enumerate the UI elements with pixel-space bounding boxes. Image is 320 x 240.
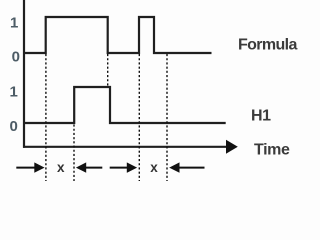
svg-text:0: 0 xyxy=(10,118,18,135)
svg-text:Formula: Formula xyxy=(238,36,297,53)
dimension arrow out of second x (points left) xyxy=(179,167,205,169)
dashed guide line at first x end xyxy=(73,125,75,182)
svg-text:0: 0 xyxy=(12,49,20,66)
arrowhead of third dimension arrow xyxy=(127,162,137,172)
svg-text:1: 1 xyxy=(10,84,18,101)
vertical signal axis xyxy=(23,0,25,148)
dashed guide line at second x end xyxy=(166,54,168,181)
dimension arrow into first x (points right) xyxy=(16,167,35,169)
svg-text:x: x xyxy=(150,160,158,175)
time axis arrowhead xyxy=(226,140,238,154)
H1 waveform trace xyxy=(24,87,226,123)
Formula waveform trace xyxy=(24,17,212,53)
dimension arrow out of first x (points left) xyxy=(86,167,103,169)
dashed guide line at second x start xyxy=(138,54,140,181)
dimension arrow into second x (points right) xyxy=(110,167,128,169)
arrowhead of second dimension arrow xyxy=(76,162,86,172)
svg-text:x: x xyxy=(57,160,65,175)
svg-text:Time: Time xyxy=(254,141,290,158)
dashed guide line at first x start xyxy=(45,54,47,181)
svg-text:H1: H1 xyxy=(251,108,271,125)
arrowhead of first dimension arrow xyxy=(34,162,44,172)
arrowhead of fourth dimension arrow xyxy=(169,162,179,172)
time axis xyxy=(23,146,227,148)
svg-text:1: 1 xyxy=(10,15,18,32)
short dashed guide at Formula fall / H1 fall xyxy=(107,54,109,86)
